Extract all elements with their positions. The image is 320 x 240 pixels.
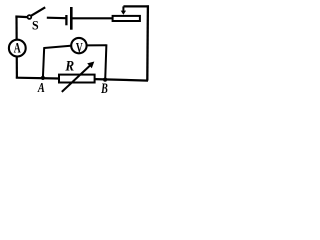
resistor R (variable, between A and B) [59, 58, 95, 92]
battery [66, 7, 71, 30]
wire right vertical [146, 5, 149, 80]
wire bottom-left horizontal (corner to resistor R) [16, 77, 59, 80]
svg-text:S: S [32, 18, 39, 32]
voltmeter V [71, 38, 86, 56]
svg-text:A: A [14, 40, 21, 56]
svg-text:B: B [100, 80, 108, 97]
wire bottom-right horizontal (resistor R to right corner) [95, 79, 148, 81]
wire top-right horizontal (slider to right corner) [123, 5, 149, 7]
wire battery to rheostat [72, 17, 112, 19]
wire voltmeter left drop to node A [43, 47, 44, 78]
node B [100, 78, 108, 97]
switch S [28, 7, 46, 32]
wire voltmeter right drop to node B [105, 44, 106, 79]
svg-text:A: A [37, 80, 45, 96]
ammeter A [9, 40, 26, 57]
wire switch to battery [47, 17, 66, 20]
wire top-left horizontal (corner to switch) [15, 15, 27, 18]
wire voltmeter left lead [44, 46, 71, 48]
wire voltmeter right lead [87, 44, 107, 46]
svg-text:V: V [76, 39, 83, 55]
rheostat (slide rheostat, top right) [113, 6, 140, 21]
wire left vertical (through ammeter) [15, 16, 18, 79]
svg-text:R: R [64, 58, 74, 75]
node A [37, 76, 45, 95]
